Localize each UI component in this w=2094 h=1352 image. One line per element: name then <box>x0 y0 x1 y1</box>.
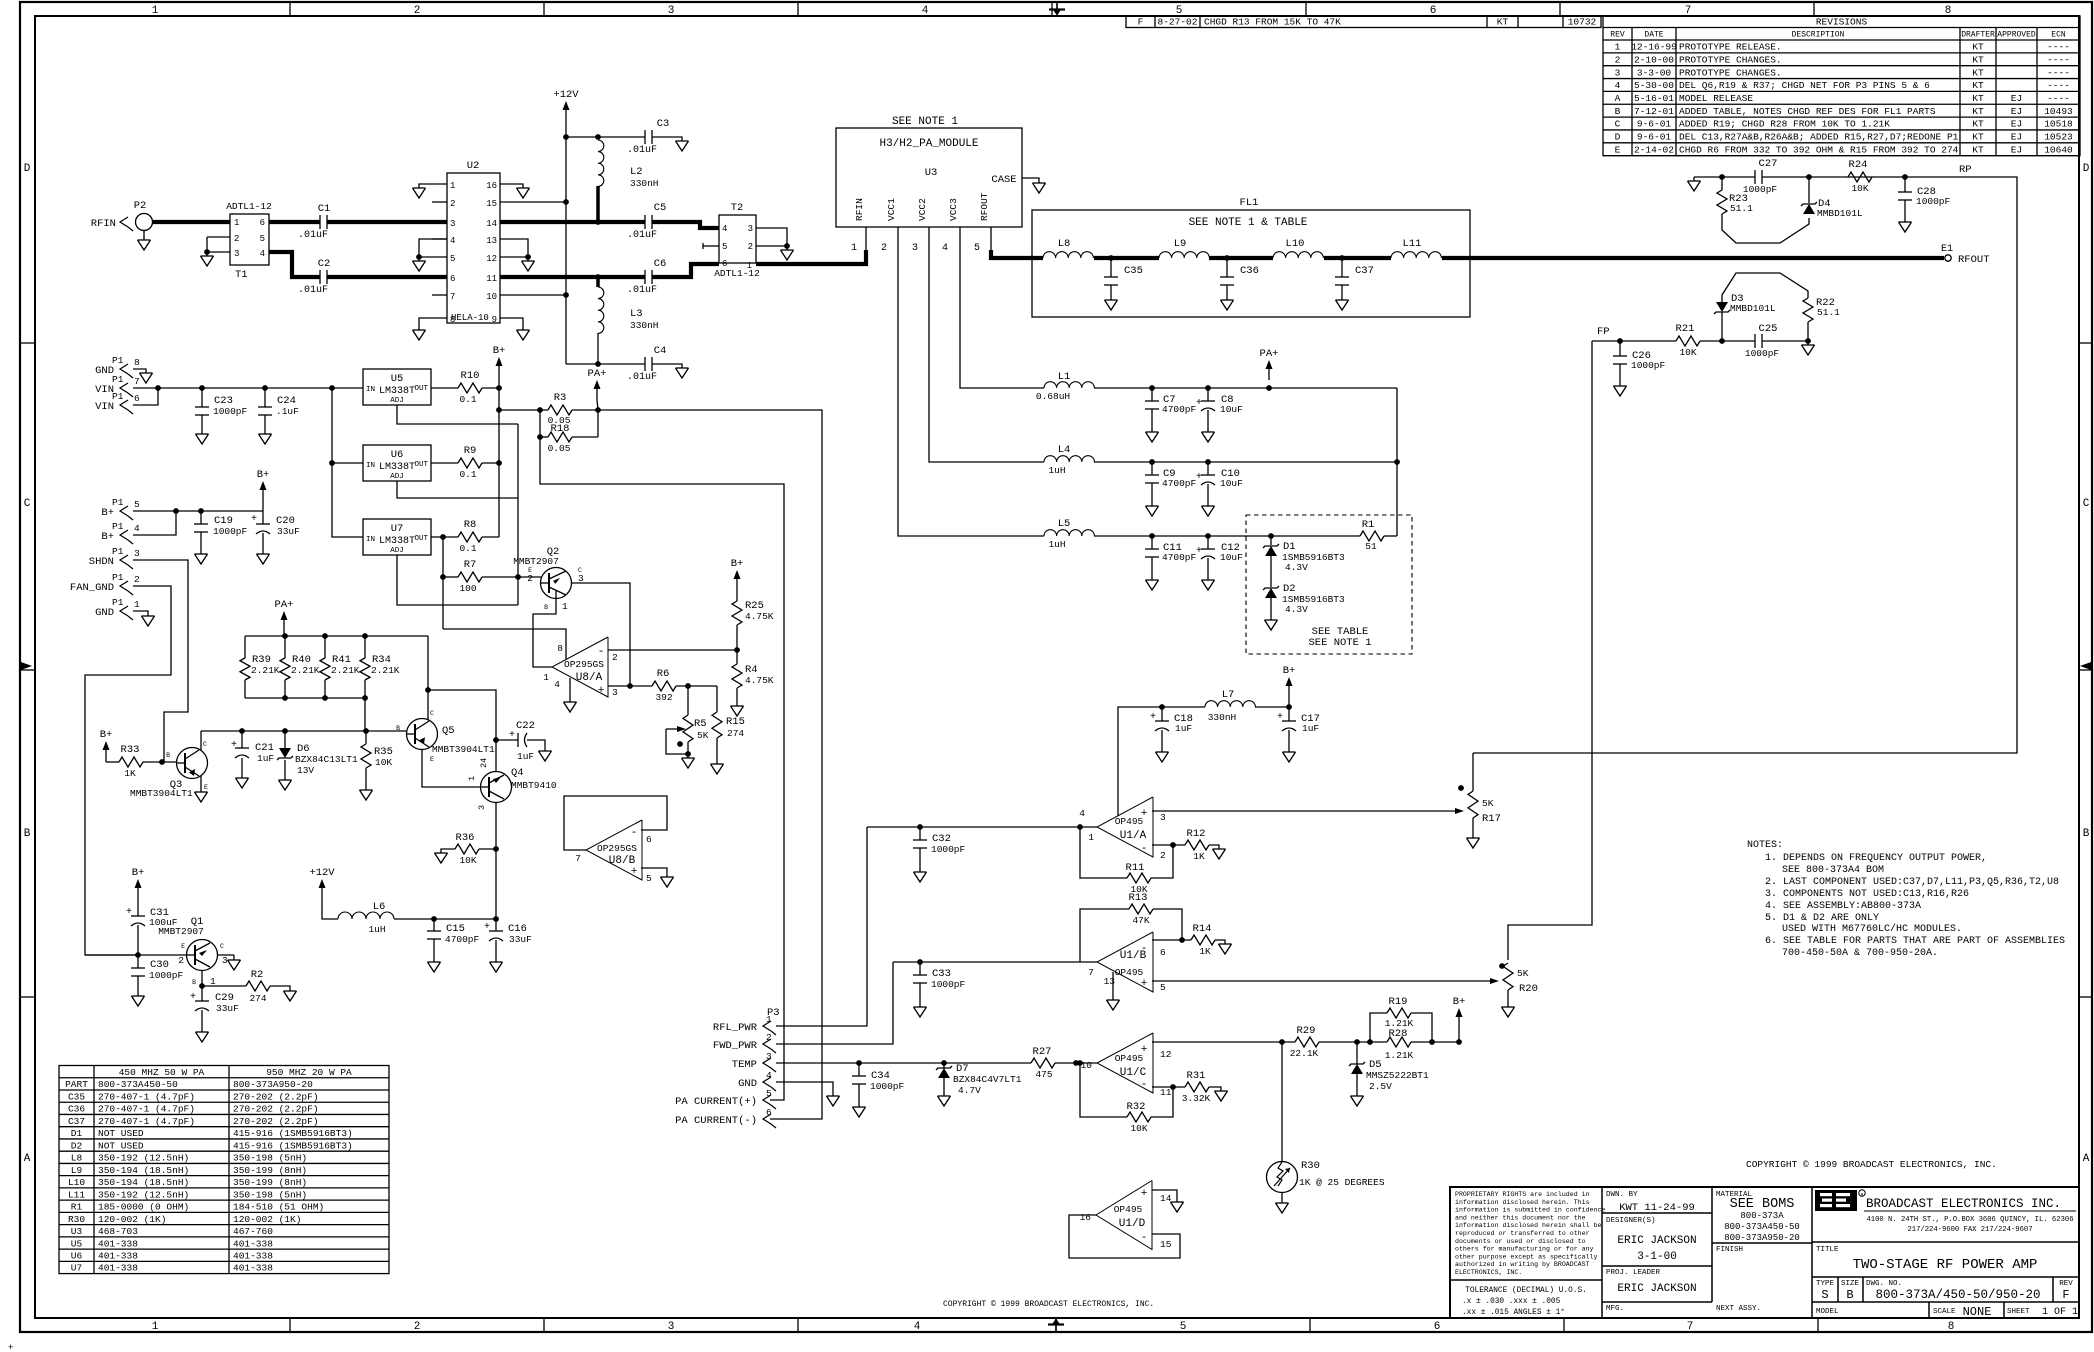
svg-text:0.68uH: 0.68uH <box>1036 391 1070 402</box>
svg-text:6: 6 <box>722 259 727 269</box>
designers cell <box>1602 1265 1712 1267</box>
svg-text:4. SEE ASSEMBLY:AB800-373A: 4. SEE ASSEMBLY:AB800-373A <box>1765 901 1921 912</box>
svg-text:10K: 10K <box>459 855 476 866</box>
svg-text:SCALE: SCALE <box>1933 1308 1956 1316</box>
ground C20 <box>257 553 270 555</box>
svg-text:L6: L6 <box>373 901 386 913</box>
svg-text:3.32K: 3.32K <box>1182 1093 1211 1104</box>
svg-text:4: 4 <box>554 679 560 690</box>
wire U8B feedback loop <box>564 796 667 850</box>
wire U2 pin14 to C5 <box>500 220 645 224</box>
svg-text:reproduced or transferred to o: reproduced or transferred to other <box>1455 1230 1590 1237</box>
wire U8A plus input <box>608 685 652 687</box>
transformer T2 <box>719 215 756 263</box>
svg-text:MODEL RELEASE: MODEL RELEASE <box>1679 93 1753 104</box>
svg-text:15: 15 <box>486 199 497 209</box>
wire R6 right junction <box>676 685 717 687</box>
svg-text:D: D <box>1615 132 1621 143</box>
svg-text:B: B <box>1846 1288 1853 1302</box>
transformer T1 <box>230 214 269 265</box>
svg-text:33uF: 33uF <box>509 934 532 945</box>
svg-text:1K @ 25 DEGREES: 1K @ 25 DEGREES <box>1299 1177 1385 1188</box>
svg-text:+: + <box>251 514 257 525</box>
svg-text:+: + <box>1150 712 1156 723</box>
ground C11 <box>1146 579 1159 581</box>
svg-text:CHGD R6 FROM 332 TO 392 OHM &: CHGD R6 FROM 332 TO 392 OHM & R15 FROM 3… <box>1679 144 1959 155</box>
svg-text:VCC2: VCC2 <box>917 198 928 221</box>
inductor L7 <box>1162 706 1205 708</box>
svg-text:.1uF: .1uF <box>276 406 299 417</box>
svg-text:+: + <box>484 922 490 933</box>
svg-text:KWT 11-24-99: KWT 11-24-99 <box>1619 1202 1695 1214</box>
wire Q5 emitter to Q4 base <box>422 749 481 787</box>
svg-text:3: 3 <box>668 1321 675 1333</box>
svg-text:other purpose except as specif: other purpose except as specifically <box>1455 1253 1597 1260</box>
svg-text:330nH: 330nH <box>630 178 659 189</box>
ground C18 <box>1156 751 1169 753</box>
wire C2 to U2 pin6 <box>327 275 447 279</box>
ground R36 <box>435 852 448 854</box>
wire +12V vertical <box>565 121 567 364</box>
svg-text:468-703: 468-703 <box>98 1226 138 1237</box>
wire L7 to C17 B+ <box>1255 706 1289 708</box>
svg-text:13V: 13V <box>297 765 314 776</box>
wire U1B pin13 ground <box>1112 972 1114 1000</box>
svg-text:R6: R6 <box>657 668 670 680</box>
svg-text:8-27-02: 8-27-02 <box>1158 17 1198 28</box>
svg-text:RFOUT: RFOUT <box>979 192 990 221</box>
svg-text:+: + <box>231 740 237 751</box>
svg-text:L8: L8 <box>1058 238 1071 250</box>
svg-text:1: 1 <box>152 1321 159 1333</box>
svg-text:PA+: PA+ <box>275 599 294 611</box>
svg-text:C: C <box>24 498 31 510</box>
capacitor C18 <box>1159 704 1165 710</box>
svg-text:NEXT ASSY.: NEXT ASSY. <box>1716 1305 1761 1313</box>
svg-text:+: + <box>1196 472 1202 483</box>
svg-text:-: - <box>1141 1232 1148 1244</box>
svg-text:270-202 (2.2pF): 270-202 (2.2pF) <box>233 1104 319 1115</box>
svg-text:OP495: OP495 <box>1115 816 1144 827</box>
resistor R14 <box>1191 935 1215 945</box>
svg-text:2: 2 <box>134 574 140 585</box>
wire L4 row <box>1094 461 1397 463</box>
svg-text:10732: 10732 <box>1568 17 1597 28</box>
svg-text:.01uF: .01uF <box>298 285 328 296</box>
svg-text:U5: U5 <box>391 373 404 385</box>
svg-text:NONE: NONE <box>1963 1305 1992 1319</box>
svg-text:C36: C36 <box>1240 265 1259 277</box>
svg-text:RFOUT: RFOUT <box>1958 254 1990 266</box>
inductor L5 <box>1044 530 1094 536</box>
svg-text:4: 4 <box>450 236 455 246</box>
svg-text:5K: 5K <box>697 730 709 741</box>
svg-text:B+: B+ <box>101 507 114 519</box>
capacitor C34 <box>858 1063 860 1076</box>
wire R23 loop to D4 <box>1722 214 1809 243</box>
svg-text:and neither this document nor: and neither this document nor the <box>1455 1214 1586 1221</box>
ground C10 <box>1202 505 1215 507</box>
svg-text:1: 1 <box>1615 42 1621 53</box>
resistor R25 <box>736 590 738 601</box>
svg-text:C: C <box>1615 119 1621 130</box>
ground C22 <box>539 750 552 752</box>
op-amp U8/A <box>552 637 608 697</box>
svg-text:2.21K: 2.21K <box>371 665 400 676</box>
svg-text:----: ---- <box>2047 80 2070 91</box>
svg-text:401-338: 401-338 <box>98 1238 138 1249</box>
svg-text:R21: R21 <box>1676 323 1695 335</box>
svg-text:1uF: 1uF <box>257 753 274 764</box>
svg-text:1000pF: 1000pF <box>1743 184 1778 195</box>
svg-text:C4: C4 <box>654 345 667 357</box>
svg-text:3: 3 <box>477 805 487 810</box>
svg-text:TOLERANCE (DECIMAL) U.O.S.: TOLERANCE (DECIMAL) U.O.S. <box>1465 1287 1587 1295</box>
svg-text:S: S <box>1821 1288 1828 1302</box>
ground C19 <box>195 553 208 555</box>
wire U1D plus ground <box>1152 1190 1177 1202</box>
svg-text:TWO-STAGE RF POWER AMP: TWO-STAGE RF POWER AMP <box>1853 1257 2038 1273</box>
svg-text:VCC1: VCC1 <box>886 198 897 221</box>
svg-text:-: - <box>1141 1079 1148 1091</box>
svg-text:4700pF: 4700pF <box>1162 478 1197 489</box>
svg-text:6: 6 <box>646 834 652 845</box>
svg-text:MMSZ5222BT1: MMSZ5222BT1 <box>1366 1070 1429 1081</box>
svg-text:R15: R15 <box>726 716 745 728</box>
svg-text:OP295GS: OP295GS <box>597 843 637 854</box>
svg-text:.01uF: .01uF <box>298 230 328 241</box>
svg-text:C: C <box>578 567 582 574</box>
svg-text:15: 15 <box>1160 1239 1172 1250</box>
ground R12 <box>1213 848 1226 850</box>
svg-text:450 MHZ 50 W PA: 450 MHZ 50 W PA <box>119 1067 205 1078</box>
svg-text:4: 4 <box>134 523 140 534</box>
diode D7 zener <box>943 1063 945 1068</box>
svg-text:+: + <box>1141 1044 1148 1056</box>
svg-text:PA CURRENT(-): PA CURRENT(-) <box>675 1115 757 1127</box>
svg-text:7: 7 <box>134 376 140 387</box>
svg-text:800-373A950-20: 800-373A950-20 <box>233 1079 313 1090</box>
ground R30 <box>1276 1202 1289 1204</box>
svg-text:LM338T: LM338T <box>379 462 415 473</box>
svg-text:2.5V: 2.5V <box>1369 1081 1392 1092</box>
svg-text:1: 1 <box>450 181 455 191</box>
svg-text:C1: C1 <box>318 203 331 215</box>
svg-text:4100 N. 24TH ST., P.O.BOX 3606: 4100 N. 24TH ST., P.O.BOX 3606 QUINCY, I… <box>1866 1216 2073 1224</box>
wire +12V branch to C3 <box>566 136 645 138</box>
svg-text:OP495: OP495 <box>1115 967 1144 978</box>
svg-text:2.21K: 2.21K <box>251 665 280 676</box>
ground R5 <box>682 757 695 759</box>
inductor L6 <box>322 899 338 919</box>
wire P3-2 FWD_PWR <box>776 962 893 1044</box>
svg-text:R27: R27 <box>1033 1046 1052 1058</box>
wire U1D feedback loop <box>1069 1215 1180 1258</box>
svg-text:4: 4 <box>722 224 727 234</box>
svg-text:270-407-1 (4.7pF): 270-407-1 (4.7pF) <box>98 1091 195 1102</box>
svg-text:MMBT2907: MMBT2907 <box>513 556 559 567</box>
wire U1B output row C33 <box>893 961 1097 963</box>
diode D5 zener <box>1356 1042 1358 1064</box>
wire Q3 collector <box>200 731 202 750</box>
svg-text:700-450-50A & 700-950-20A.: 700-450-50A & 700-950-20A. <box>1782 948 1938 959</box>
svg-text:OP495: OP495 <box>1115 1053 1144 1064</box>
ground R14 <box>1219 943 1232 945</box>
svg-text:SEE NOTE 1: SEE NOTE 1 <box>1308 637 1371 649</box>
svg-text:C: C <box>203 741 207 748</box>
svg-text:KT: KT <box>1972 119 1984 130</box>
capacitor C24 <box>264 388 266 407</box>
svg-text:+: + <box>631 866 638 878</box>
ground C16 <box>490 961 503 963</box>
svg-text:DWG. NO.: DWG. NO. <box>1866 1280 1902 1288</box>
potentiometer R5 <box>687 686 689 715</box>
svg-text:C25: C25 <box>1759 323 1778 335</box>
svg-text:OP495: OP495 <box>1114 1204 1143 1215</box>
svg-text:3: 3 <box>450 219 455 229</box>
svg-text:EJ: EJ <box>2011 132 2022 143</box>
svg-text:4700pF: 4700pF <box>1162 404 1197 415</box>
svg-text:800-373A450-50: 800-373A450-50 <box>98 1079 178 1090</box>
svg-text:DEL C13,R27A&B,R26A&B; ADDED R: DEL C13,R27A&B,R26A&B; ADDED R15,R27,D7;… <box>1679 132 1959 143</box>
diode D3 <box>1721 312 1723 341</box>
svg-text:C2: C2 <box>318 258 331 270</box>
capacitor C26 <box>1619 341 1621 356</box>
svg-text:4.7V: 4.7V <box>958 1085 981 1096</box>
dashed box D1 D2 <box>1246 515 1412 654</box>
svg-text:8: 8 <box>557 643 563 654</box>
resistor R18 <box>539 410 541 437</box>
svg-text:800-373A950-20: 800-373A950-20 <box>1724 1233 1800 1243</box>
wire R7 to Q2 <box>482 576 541 578</box>
svg-text:B+: B+ <box>132 867 145 879</box>
svg-text:P1: P1 <box>112 597 124 608</box>
capacitor C15 <box>433 919 435 931</box>
U2 pin stubs left <box>432 201 447 203</box>
resistor R22 <box>1803 298 1813 322</box>
svg-text:PROJ. LEADER: PROJ. LEADER <box>1606 1269 1661 1277</box>
svg-text:14: 14 <box>486 219 497 229</box>
svg-text:information disclosed herein.: information disclosed herein. This <box>1455 1199 1590 1206</box>
wire Q5 collector up <box>427 636 429 719</box>
resistor R13 feedback <box>1153 909 1182 940</box>
svg-text:D: D <box>24 163 31 175</box>
svg-text:5: 5 <box>722 242 727 252</box>
svg-text:U3: U3 <box>925 167 938 179</box>
svg-text:1. DEPENDS ON FREQUENCY OUTPUT: 1. DEPENDS ON FREQUENCY OUTPUT POWER, <box>1765 853 1987 864</box>
ground C7 <box>1146 431 1159 433</box>
svg-text:1: 1 <box>1088 832 1094 843</box>
svg-text:4: 4 <box>260 249 265 259</box>
svg-text:1: 1 <box>851 243 857 254</box>
op-amp U1/A <box>1097 797 1153 857</box>
ground C23 <box>196 433 209 435</box>
svg-text:DEL Q6,R19 & R37; CHGD NET FOR: DEL Q6,R19 & R37; CHGD NET FOR P3 PINS 5… <box>1679 80 1930 91</box>
ground C37 <box>1336 299 1349 301</box>
wire shunt left sense to P3-5 <box>540 437 784 1100</box>
svg-text:----: ---- <box>2047 54 2070 65</box>
svg-text:2.21K: 2.21K <box>291 665 320 676</box>
ground R4 <box>731 705 744 707</box>
capacitor C10 <box>1207 462 1209 475</box>
svg-text:270-407-1 (4.7pF): 270-407-1 (4.7pF) <box>98 1104 195 1115</box>
svg-text:TYPE: TYPE <box>1816 1280 1835 1288</box>
svg-text:EJ: EJ <box>2011 106 2022 117</box>
svg-text:+: + <box>1196 398 1202 409</box>
svg-text:+: + <box>509 730 515 741</box>
wire B+ to R3 <box>499 409 548 411</box>
svg-text:CASE: CASE <box>991 174 1016 186</box>
capacitor C2 <box>319 270 321 284</box>
inductor L4 <box>1044 456 1094 462</box>
wire FAN_GND down to Q1 <box>85 586 171 955</box>
svg-text:R2: R2 <box>251 969 264 981</box>
svg-text:U1/C: U1/C <box>1120 1067 1147 1079</box>
svg-text:BZX84C13LT1: BZX84C13LT1 <box>295 754 358 765</box>
ground C30 <box>132 995 145 997</box>
ground R17 <box>1467 837 1480 839</box>
svg-text:6: 6 <box>1430 5 1437 17</box>
svg-text:270-407-1 (4.7pF): 270-407-1 (4.7pF) <box>98 1116 195 1127</box>
potentiometer R17 <box>1455 808 1464 814</box>
svg-text:10uF: 10uF <box>1220 478 1243 489</box>
svg-text:1uH: 1uH <box>1048 539 1065 550</box>
wire VCC2 vertical <box>929 227 1044 462</box>
svg-text:950 MHZ 20 W PA: 950 MHZ 20 W PA <box>266 1067 352 1078</box>
svg-text:3: 3 <box>1615 67 1621 78</box>
wire pin8 power feed <box>443 629 566 659</box>
svg-text:10493: 10493 <box>2044 106 2073 117</box>
svg-text:MMBT9410: MMBT9410 <box>511 780 557 791</box>
svg-text:5: 5 <box>1180 1321 1187 1333</box>
svg-text:1uH: 1uH <box>1048 465 1065 476</box>
svg-text:R20: R20 <box>1519 983 1538 995</box>
svg-text:R29: R29 <box>1297 1025 1316 1037</box>
svg-text:2: 2 <box>450 199 455 209</box>
wire Q5 collector tap to C22 <box>428 690 496 740</box>
wire R9 to B+ <box>482 462 499 464</box>
svg-text:350-194 (18.5nH): 350-194 (18.5nH) <box>98 1177 189 1188</box>
svg-text:E1: E1 <box>1941 244 1953 255</box>
svg-text:2: 2 <box>881 243 887 254</box>
svg-text:PROTOTYPE CHANGES.: PROTOTYPE CHANGES. <box>1679 67 1782 78</box>
svg-text:VCC3: VCC3 <box>948 198 959 221</box>
svg-text:E: E <box>181 943 185 950</box>
wire U1A minus R12 <box>1152 844 1185 846</box>
svg-text:5K: 5K <box>1482 798 1494 809</box>
svg-text:P1: P1 <box>112 374 124 385</box>
ground R2 <box>284 990 297 992</box>
svg-text:12-16-99: 12-16-99 <box>1631 42 1677 53</box>
svg-text:SEE 800-373A4 BOM: SEE 800-373A4 BOM <box>1782 865 1884 876</box>
wire L6 row <box>394 918 496 920</box>
ground R15 <box>711 763 724 765</box>
svg-text:4: 4 <box>1615 80 1621 91</box>
wire U2 pin1 to ground <box>419 184 447 188</box>
wire P1-1 to ground <box>133 611 148 616</box>
svg-text:P1: P1 <box>112 572 124 583</box>
svg-text:R28: R28 <box>1389 1028 1408 1040</box>
svg-text:ADJ: ADJ <box>390 473 404 481</box>
svg-text:LM338T: LM338T <box>379 536 415 547</box>
capacitor C19 <box>200 511 202 524</box>
svg-text:C35: C35 <box>68 1091 85 1102</box>
svg-text:information is submitted in co: information is submitted in confidence <box>1455 1207 1605 1214</box>
svg-text:KT: KT <box>1972 54 1984 65</box>
ground C34 <box>853 1106 866 1108</box>
svg-text:401-338: 401-338 <box>233 1263 273 1274</box>
wire P1-6 VIN <box>133 388 158 405</box>
wire U8B plus to ground <box>641 868 667 877</box>
svg-text:B: B <box>166 752 170 759</box>
svg-text:+12V: +12V <box>309 867 335 879</box>
svg-text:2: 2 <box>414 5 421 17</box>
svg-text:1uH: 1uH <box>368 924 385 935</box>
svg-text:1000pF: 1000pF <box>870 1081 905 1092</box>
ground D5 <box>1351 1095 1364 1097</box>
svg-text:10K: 10K <box>1851 183 1868 194</box>
capacitor C35 <box>1110 258 1112 277</box>
wire L2 to RF line <box>596 186 600 222</box>
svg-text:5: 5 <box>134 499 140 510</box>
wire L3 bottom to C4 line <box>597 333 599 364</box>
svg-text:2-10-00: 2-10-00 <box>1634 54 1674 65</box>
capacitor C5 <box>644 215 646 229</box>
wire U6 to R9 <box>431 462 458 464</box>
inductor L2 <box>598 140 604 186</box>
svg-text:+: + <box>126 907 132 918</box>
svg-text:H3/H2_PA_MODULE: H3/H2_PA_MODULE <box>879 138 978 150</box>
wire U7 ADJ <box>397 555 518 605</box>
T2 pin5 stub <box>703 245 719 247</box>
svg-text:12: 12 <box>1160 1049 1172 1060</box>
capacitor C7 <box>1151 388 1153 401</box>
capacitor C9 <box>1151 462 1153 475</box>
svg-text:R11: R11 <box>1126 862 1145 874</box>
ground U2 pin1 <box>413 187 426 189</box>
diode D6 zener <box>284 731 286 748</box>
svg-text:U2: U2 <box>467 160 480 172</box>
svg-text:2. LAST COMPONENT USED:C37,D7,: 2. LAST COMPONENT USED:C37,D7,L11,P3,Q5,… <box>1765 877 2059 888</box>
capacitor C1 <box>319 215 321 229</box>
svg-text:2: 2 <box>414 1321 421 1333</box>
svg-text:F: F <box>2062 1288 2069 1302</box>
ground C32 <box>914 871 927 873</box>
svg-text:9: 9 <box>492 315 497 325</box>
wire C5 to T2 <box>652 222 719 228</box>
svg-text:R3: R3 <box>554 392 567 404</box>
wire T2 pin3 pin2 to ground <box>756 228 787 246</box>
svg-text:L10: L10 <box>1286 238 1305 250</box>
wire P3-4 GND <box>776 1082 833 1096</box>
svg-text:R13: R13 <box>1129 892 1148 904</box>
svg-text:1uF: 1uF <box>1175 723 1192 734</box>
resistor R8 <box>458 532 482 542</box>
svg-text:MMBT3904LT1: MMBT3904LT1 <box>432 744 495 755</box>
svg-text:1K: 1K <box>124 768 136 779</box>
svg-text:350-192 (12.5nH): 350-192 (12.5nH) <box>98 1189 189 1200</box>
wire C3 to ground <box>652 137 682 141</box>
resistor R4 <box>736 650 738 664</box>
svg-text:2-14-02: 2-14-02 <box>1634 144 1674 155</box>
wire L1 row <box>1094 387 1397 389</box>
wire C4 to ground <box>652 364 682 368</box>
svg-text:9-6-01: 9-6-01 <box>1637 132 1672 143</box>
svg-text:R30: R30 <box>1301 1160 1320 1172</box>
wire +12V bottom to C4 <box>566 363 645 365</box>
ground R20 <box>1502 1006 1515 1008</box>
svg-text:5: 5 <box>450 254 455 264</box>
